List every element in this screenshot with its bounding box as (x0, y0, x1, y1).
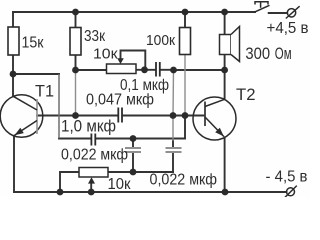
node junction 1.0uF cap (130, 135, 137, 142)
node junction 33k bottom (72, 67, 79, 74)
wire feedback drop x59 (58, 75, 60, 138)
wire speaker bottom lead (224, 55, 226, 71)
node junction T2 emitter rail (222, 189, 229, 196)
svg-text:0,022 мкф: 0,022 мкф (150, 172, 218, 189)
node junction T2 base (182, 112, 189, 119)
node junction 100k top rail (182, 9, 189, 16)
wire riser to base node (184, 116, 186, 139)
wire pot right to cap 0.1 (136, 69, 155, 71)
node junction speaker bottom (221, 67, 228, 74)
wire top switch feed (269, 12, 288, 14)
wire T2 emitter drop (224, 137, 226, 192)
wire bottom rail (14, 191, 287, 193)
wire 15k top lead (12, 12, 14, 27)
wire bottom pot wiper stem (90, 183, 92, 192)
svg-text:33к: 33к (84, 28, 106, 45)
svg-text:100к: 100к (146, 32, 175, 49)
svg-text:0,022 мкф: 0,022 мкф (61, 147, 128, 164)
node A junction 15k/T1 (10, 71, 17, 78)
capacitor C5 0.022uF vertical right (166, 148, 182, 152)
wire node to speaker node (174, 69, 225, 71)
wire cap x133 leads (132, 139, 134, 173)
wire 1.0uF cap to riser (97, 138, 186, 140)
wire 33k bottom lead (75, 55, 77, 70)
wire 15k bottom lead (12, 55, 14, 74)
wire node to pot left (76, 69, 107, 71)
wire T2 collector riser (224, 70, 226, 99)
wire 100k top lead (184, 12, 186, 28)
resistor R4 100k (180, 28, 191, 55)
svg-text:15к: 15к (22, 35, 45, 52)
capacitor C2 0.047uF (118, 108, 122, 123)
wire left feedback horizontal (13, 73, 59, 75)
resistor R2 33k (70, 28, 81, 56)
node junction pot right (130, 169, 137, 176)
node junction speaker top rail (221, 9, 228, 16)
svg-text:Ом: Ом (275, 44, 292, 63)
node junction cap 0.1 out (170, 67, 177, 74)
wire bottom pot left (60, 172, 79, 192)
node junction 33k top rail (72, 9, 79, 16)
switch S1 (254, 2, 270, 13)
wire base line T1 to cap (37, 115, 117, 117)
potentiometer R3 wiper arrow (117, 58, 124, 64)
svg-text:Т1: Т1 (35, 83, 54, 101)
wire gray 100k bottom lead (184, 55, 186, 116)
wire gray cap chain x173 (172, 70, 175, 140)
terminal -4.5V (285, 186, 297, 198)
potentiometer R5 wiper arrow (88, 177, 95, 183)
terminal +4.5V (286, 6, 300, 18)
wire speaker top lead (224, 12, 226, 35)
svg-text:10к: 10к (108, 176, 132, 193)
capacitor C1 0.1uF (156, 62, 160, 77)
node junction bottom wiper (88, 189, 95, 196)
speaker BA1 (220, 27, 240, 62)
node junction bottom rail left (57, 189, 64, 196)
transistor T2 (193, 97, 236, 140)
svg-text:+4,5 в: +4,5 в (267, 20, 309, 37)
wire node to T1 collector (12, 74, 14, 96)
wire gray 33k node to base node (75, 70, 77, 116)
wire left feedback to 1.0uF cap (59, 138, 90, 140)
transistor T1 (0, 95, 43, 138)
svg-text:10к: 10к (93, 46, 118, 63)
node junction pot wiper (141, 66, 148, 73)
wire bottom pot right to cap node (108, 171, 173, 173)
wire 33k top lead (75, 12, 77, 28)
node junction T1 base (72, 112, 79, 119)
svg-text:0,047 мкф: 0,047 мкф (86, 92, 154, 109)
wire top rail (13, 11, 255, 13)
resistor R1 15k (8, 27, 19, 55)
wire pot wiper loop (121, 51, 146, 70)
capacitor C4 0.022uF vertical left (125, 148, 141, 152)
svg-text:Т2: Т2 (236, 86, 256, 104)
svg-text:300: 300 (245, 44, 270, 63)
capacitor C3 1.0uF (91, 134, 95, 146)
node junction cap chain base (170, 112, 177, 119)
potentiometer R5 10k bottom (79, 168, 108, 178)
wire cap 0.047 to T2 base (124, 115, 205, 117)
svg-text:- 4,5 в: - 4,5 в (266, 168, 308, 185)
wire cap 0.1 to node (161, 69, 174, 71)
svg-text:1,0 мкф: 1,0 мкф (61, 117, 116, 136)
wire cap x173 bottom segment (172, 140, 174, 172)
wire T1 emitter drop (13, 136, 15, 192)
potentiometer R3 10k top (107, 64, 137, 74)
